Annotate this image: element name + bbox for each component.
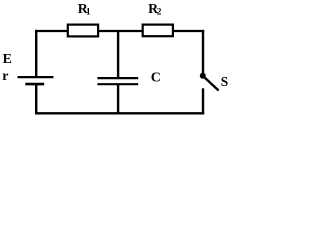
wire left lower (battery negative lead) bbox=[35, 85, 37, 114]
wire bottom bbox=[35, 112, 204, 114]
wire left upper (battery positive lead) bbox=[35, 30, 37, 77]
svg-text:2: 2 bbox=[157, 8, 162, 18]
label C bbox=[151, 71, 161, 86]
wire right upper (to switch pivot) bbox=[202, 30, 204, 74]
wire middle branch lower (capacitor bottom lead) bbox=[117, 85, 119, 113]
svg-text:S: S bbox=[221, 74, 228, 89]
wire top (node between R1, R2 and capacitor branch) bbox=[35, 30, 204, 32]
wire middle branch upper (capacitor top lead) bbox=[117, 31, 119, 78]
label R1 bbox=[78, 1, 91, 18]
battery E,r bbox=[18, 77, 54, 84]
switch S blade (open) bbox=[204, 77, 218, 90]
label E bbox=[3, 52, 12, 67]
label r bbox=[2, 69, 8, 84]
label R2 bbox=[148, 1, 162, 18]
wire right lower (switch bottom lead) bbox=[202, 88, 204, 114]
node switch pivot bbox=[200, 73, 206, 79]
label S bbox=[221, 74, 228, 89]
capacitor C bbox=[97, 78, 138, 84]
resistor R2 bbox=[143, 25, 173, 37]
svg-text:1: 1 bbox=[86, 8, 91, 18]
svg-text:r: r bbox=[2, 69, 8, 84]
resistor R1 bbox=[68, 25, 98, 37]
svg-text:C: C bbox=[151, 71, 161, 86]
svg-text:E: E bbox=[3, 52, 12, 67]
